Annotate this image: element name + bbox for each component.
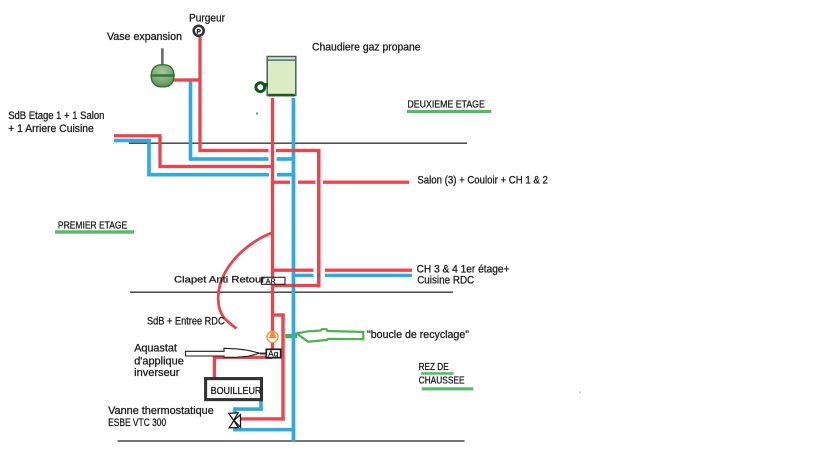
svg-text:d'applique: d'applique — [134, 355, 184, 367]
wire red branch stub — [272, 313, 285, 316]
chaudiere bottom bar — [268, 94, 294, 97]
wire red purgeur riser — [198, 37, 201, 152]
wire red branch bottom horizontal to valve — [241, 417, 285, 420]
wire blue bouilleur outlet horizontal — [233, 407, 262, 411]
wire red CH horizontal right segment — [325, 269, 412, 272]
wire red dashed salon dash 1 — [274, 181, 290, 184]
svg-text:Vase expansion: Vase expansion — [107, 31, 182, 43]
svg-text:Clapet Anti Retour: Clapet Anti Retour — [174, 274, 265, 284]
pump circulateur orange — [267, 332, 278, 343]
svg-text:Purgeur: Purgeur — [189, 12, 225, 24]
svg-text:BOUILLEUR: BOUILLEUR — [211, 386, 262, 397]
svg-text:SdB Etage 1 + 1 Salon: SdB Etage 1 + 1 Salon — [8, 110, 104, 122]
svg-text:DEUXIEME ETAGE: DEUXIEME ETAGE — [407, 99, 485, 111]
wire blue bottom horizontal to riser B — [233, 428, 295, 432]
svg-text:AR: AR — [266, 278, 276, 285]
svg-text:Aq: Aq — [268, 349, 279, 359]
node crossing purple CH blue x riser C — [317, 274, 321, 277]
svg-text:inverseur: inverseur — [134, 367, 180, 379]
wire blue SdB horizontal bottom left segment — [147, 173, 269, 177]
wire red branch riser A2 — [281, 314, 284, 421]
wire red dashed salon long segment — [323, 181, 409, 184]
wire red bottom U horizontal — [271, 284, 321, 287]
aquastat callout dash — [260, 353, 266, 355]
svg-text:Salon (3) + Couloir + CH 1 & 2: Salon (3) + Couloir + CH 1 & 2 — [417, 174, 547, 186]
chaudiere pump circle — [256, 83, 265, 92]
svg-text:Cuisine RDC: Cuisine RDC — [417, 274, 474, 286]
wire red riser C — [317, 149, 321, 288]
svg-text:PREMIER ETAGE: PREMIER ETAGE — [58, 220, 127, 232]
svg-text:CHAUSSEE: CHAUSSEE — [419, 374, 465, 386]
wire blue SdB horizontal bottom right segment — [277, 173, 295, 177]
wire red riser A pump-to-aq — [271, 343, 274, 351]
svg-text:+ 1 Arriere Cuisine: + 1 Arriere Cuisine — [8, 123, 94, 135]
wire red vase horizontal — [174, 78, 202, 81]
svg-text:Aquastat: Aquastat — [134, 343, 177, 355]
svg-text:Chaudiere gaz propane: Chaudiere gaz propane — [312, 42, 421, 54]
wire blue riser from purgeur area — [189, 80, 193, 161]
chaudiere pump tab — [262, 83, 269, 87]
wire blue SdB horizontal top — [114, 139, 151, 143]
wire blue SdB vertical — [147, 139, 151, 177]
wire red SdB vertical — [158, 134, 161, 168]
clapet anti retour AR box — [262, 277, 286, 284]
svg-text:REZ DE: REZ DE — [419, 361, 449, 373]
svg-text:SdB + Entree RDC: SdB + Entree RDC — [147, 316, 225, 328]
underline PREMIER ETAGE — [55, 230, 134, 233]
floor line deuxieme etage — [129, 142, 467, 144]
wire red top horizontal left segment — [199, 149, 269, 152]
svg-text:ESBE VTC 300: ESBE VTC 300 — [108, 417, 166, 429]
stray green dot — [579, 392, 581, 394]
floor line rez de chaussee — [118, 440, 465, 442]
green arrow boucle de recyclage — [285, 329, 363, 342]
wire blue CH horizontal right segment — [325, 274, 412, 277]
wire blue riser B from boiler — [292, 98, 296, 442]
vase expansion band — [150, 74, 175, 77]
wire blue valve top leg — [233, 407, 237, 415]
chaudiere lid line — [268, 59, 295, 61]
wire red top horizontal right segment — [276, 149, 321, 152]
wire red SdB horizontal bottom — [159, 165, 273, 168]
svg-text:"boucle de recyclage": "boucle de recyclage" — [367, 329, 469, 341]
underline REZ DE — [421, 372, 454, 375]
wire red SdB horizontal top — [114, 134, 162, 137]
node crossing dark red bottom U x riser B — [292, 284, 296, 287]
floor line premier etage — [130, 291, 453, 293]
aquastat callout arrow — [186, 348, 260, 357]
underline DEUXIEME ETAGE — [407, 110, 491, 113]
svg-text:Vanne thermostatique: Vanne thermostatique — [108, 405, 214, 417]
wire blue horizontal y159 right segment — [277, 157, 294, 161]
svg-text:P: P — [197, 29, 202, 36]
wire red riser A upper — [271, 98, 274, 332]
vase expansion stem — [161, 48, 164, 66]
purgeur symbol P — [194, 26, 204, 36]
aquastat Aq box — [266, 349, 280, 357]
wire red dashed salon dash 2 — [298, 181, 316, 184]
wire blue bouilleur outlet vertical — [259, 400, 263, 411]
bouilleur box — [206, 379, 262, 400]
wire red curve bypass — [218, 233, 272, 329]
wire red CH horizontal left segment — [271, 269, 314, 272]
wire blue CH horizontal left segment — [292, 274, 314, 277]
vanne thermostatique 3-way valve symbol — [229, 413, 241, 428]
underline CHAUSSEE — [422, 387, 474, 390]
wire red aquastat horizontal — [213, 356, 272, 359]
wire blue valve bottom leg — [233, 425, 237, 431]
wire blue horizontal y159 left segment — [190, 157, 269, 161]
wire red bouilleur inlet vertical — [213, 356, 216, 380]
chaudiere boiler body — [267, 57, 296, 96]
stray blue dot — [256, 113, 258, 115]
